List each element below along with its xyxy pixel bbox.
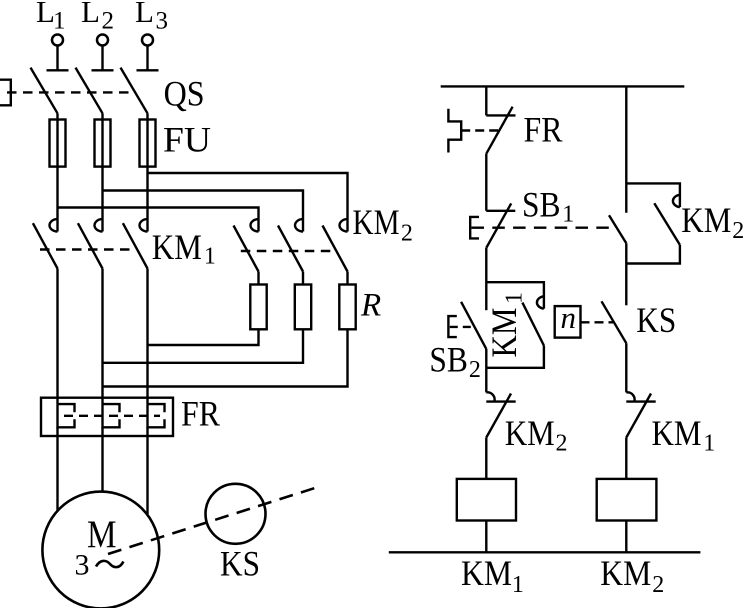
KM2 interlock blade — [486, 394, 511, 438]
right rail top segment — [625, 86, 627, 212]
KM1 interlock blade — [626, 394, 651, 438]
SB2 actuator dashed link — [450, 326, 475, 328]
contactor KM2 pole 3 fixed contact hook — [340, 219, 348, 231]
KM2 seal loop top wire — [626, 183, 680, 207]
wire KM2 coil to bottom bus — [625, 521, 627, 553]
wire KM1 pole 2 down to FR — [101, 269, 103, 405]
FR heater 2 — [103, 404, 120, 427]
QS pole 2 blade — [76, 68, 103, 114]
coil KM2 — [597, 479, 657, 521]
wire branch L3 to KM2 pole 3 — [148, 173, 348, 232]
FR NC contact blade — [486, 107, 512, 154]
wire resistor 2 return to column 2 — [103, 329, 304, 363]
wire QS to FU column 1 — [56, 113, 58, 231]
KM2 interlock hook — [486, 392, 494, 401]
stop button SB1 NC bar — [486, 210, 515, 212]
KM2 pole 1 blade — [234, 226, 259, 272]
svg-text:1: 1 — [204, 243, 216, 269]
QS handle — [0, 80, 11, 106]
wire KM1 coil to bottom bus — [485, 521, 487, 553]
wire FR to motor phase 2 — [101, 427, 103, 491]
svg-text:R: R — [360, 287, 381, 323]
svg-text:2: 2 — [102, 8, 115, 35]
SB2 button actuator — [448, 316, 456, 337]
fuse FU pole 3 — [140, 120, 156, 167]
speed switch KS circle — [206, 484, 266, 544]
right rail segment to KS — [625, 243, 627, 305]
KM2 interlock bar — [486, 400, 515, 402]
resistor R pole 2 — [295, 285, 311, 330]
wire FR to motor phase 3 — [146, 427, 148, 514]
SB1 NO blade in right rail — [609, 215, 626, 243]
KM1 seal loop bottom wire — [486, 346, 544, 368]
KS contact blade — [602, 301, 627, 343]
bottom bus — [389, 551, 701, 553]
resistor R pole 3 — [339, 285, 355, 330]
svg-text:M: M — [87, 513, 117, 556]
KM1 mechanical link dashed — [40, 248, 136, 250]
QS pole 3 blade — [121, 68, 148, 114]
disconnect switch QS pole 1 fixed bar — [47, 69, 69, 71]
motor M circle — [42, 492, 159, 608]
wire branch L2 to KM2 pole 2 — [103, 191, 304, 232]
FR NC contact bar — [486, 114, 515, 116]
fuse FU pole 2 — [95, 120, 111, 167]
svg-text:KM: KM — [152, 227, 202, 267]
FR actuator dashed link — [461, 129, 500, 131]
svg-text:L: L — [135, 0, 154, 29]
wire KM1 pole 1 down to FR — [56, 269, 58, 405]
svg-text:KM: KM — [652, 413, 702, 453]
KM2 pole 2 blade — [278, 226, 303, 272]
shaft coupling dashed line — [108, 487, 318, 554]
contactor KM1 pole 1 fixed contact hook — [50, 219, 58, 231]
svg-text:2: 2 — [469, 357, 481, 383]
svg-text:2: 2 — [401, 221, 413, 247]
wire QS to FU column 3 — [146, 113, 148, 231]
svg-text:1: 1 — [512, 572, 524, 598]
svg-text:KM: KM — [484, 308, 524, 358]
KM2 seal contact hook — [673, 195, 680, 207]
KM1 interlock hook — [626, 392, 634, 401]
KM2 seal contact blade — [654, 203, 680, 245]
coil KM1 — [457, 479, 516, 521]
terminal L2 — [97, 35, 108, 46]
FR actuator element — [448, 109, 461, 153]
KM2 seal loop bottom wire — [626, 245, 680, 264]
left rail segment FR to SB1 — [485, 154, 487, 211]
KM1 seal contact blade — [522, 303, 544, 346]
KM2 mechanical link dashed — [241, 250, 336, 252]
svg-text:KM: KM — [600, 553, 651, 593]
svg-text:SB: SB — [522, 185, 561, 225]
wire resistor 1 return to column 3 — [148, 329, 259, 345]
wire branch L1 to KM2 pole 1 — [58, 208, 259, 232]
fuse FU pole 1 — [50, 120, 66, 167]
svg-text:KM: KM — [461, 553, 512, 593]
svg-text:QS: QS — [164, 74, 205, 114]
KM1 seal loop top wire — [486, 282, 544, 308]
svg-text:KS: KS — [220, 543, 260, 583]
wire to KM1 coil — [485, 438, 487, 479]
FR heater link dashed — [64, 415, 160, 417]
svg-text:3: 3 — [75, 549, 90, 582]
wire L3 to QS — [146, 45, 148, 70]
KM1 seal contact hook — [537, 296, 544, 308]
svg-text:FU: FU — [163, 120, 211, 160]
start button SB2 NO blade — [461, 302, 486, 349]
svg-text:L: L — [81, 0, 100, 29]
SB1 actuator dashed link to KM2 aux blade — [472, 226, 616, 228]
terminal L3 — [142, 35, 153, 46]
QS pole 1 blade — [31, 68, 58, 114]
KM1 pole 2 blade — [78, 223, 103, 268]
wire QS to FU column 2 — [101, 113, 103, 231]
contactor KM2 pole 2 fixed contact hook — [295, 219, 303, 231]
QS mechanical link dashed — [7, 91, 136, 93]
SB1 NC blade — [486, 203, 511, 247]
svg-text:FR: FR — [524, 109, 563, 149]
svg-text:3: 3 — [156, 8, 169, 35]
speed relay n box — [555, 306, 581, 338]
contactor KM2 pole 1 fixed contact hook — [251, 219, 259, 231]
SB1 button actuator — [470, 217, 479, 239]
wire KM2 pole 2 to resistor 2 — [302, 272, 304, 285]
left rail top segment — [485, 86, 487, 115]
wire KM2 pole 1 to resistor 1 — [257, 272, 259, 285]
svg-text:KM: KM — [353, 202, 400, 242]
wire L2 to QS — [101, 45, 103, 70]
disconnect switch QS pole 3 fixed bar — [137, 69, 159, 71]
KM1 pole 3 blade — [123, 223, 148, 268]
disconnect switch QS pole 2 fixed bar — [92, 69, 114, 71]
KM2 pole 3 blade — [323, 226, 348, 272]
svg-text:1: 1 — [703, 430, 715, 456]
left rail segment SB2 to KM2 interlock — [485, 349, 487, 393]
svg-text:KS: KS — [636, 300, 676, 340]
left rail segment SB1 to SB2 — [485, 248, 487, 310]
wire FR to motor phase 1 — [56, 427, 58, 510]
svg-text:KM: KM — [681, 200, 731, 240]
right rail segment KS to KM1 interlock — [625, 343, 627, 392]
svg-text:1: 1 — [562, 202, 574, 228]
svg-text:1: 1 — [502, 292, 528, 304]
top bus — [441, 85, 685, 87]
wire to KM2 coil — [625, 438, 627, 479]
thermal relay FR box — [41, 398, 173, 436]
contactor KM1 pole 3 fixed contact hook — [140, 219, 148, 231]
wire L1 to QS — [56, 45, 58, 70]
svg-text:2: 2 — [652, 572, 664, 598]
svg-text:n: n — [561, 300, 577, 335]
wire KM2 pole 3 to resistor 3 — [346, 272, 348, 285]
n to KS dashed link — [581, 321, 614, 323]
FR heater 1 — [58, 404, 75, 427]
wire resistor 3 return to column 2 — [103, 329, 348, 386]
KM1 interlock bar — [626, 400, 655, 402]
svg-text:2: 2 — [556, 430, 568, 456]
KM1 pole 1 blade — [33, 223, 58, 268]
resistor R pole 1 — [250, 285, 266, 330]
svg-text:2: 2 — [732, 218, 744, 244]
svg-text:FR: FR — [181, 393, 220, 433]
svg-text:KM: KM — [505, 413, 555, 453]
terminal L1 — [52, 35, 63, 46]
wire KM1 pole 3 down to FR — [146, 269, 148, 405]
svg-text:1: 1 — [53, 8, 66, 35]
motor tilde — [96, 561, 123, 567]
svg-text:SB: SB — [429, 339, 468, 379]
FR heater 3 — [148, 404, 165, 427]
contactor KM1 pole 2 fixed contact hook — [95, 219, 103, 231]
